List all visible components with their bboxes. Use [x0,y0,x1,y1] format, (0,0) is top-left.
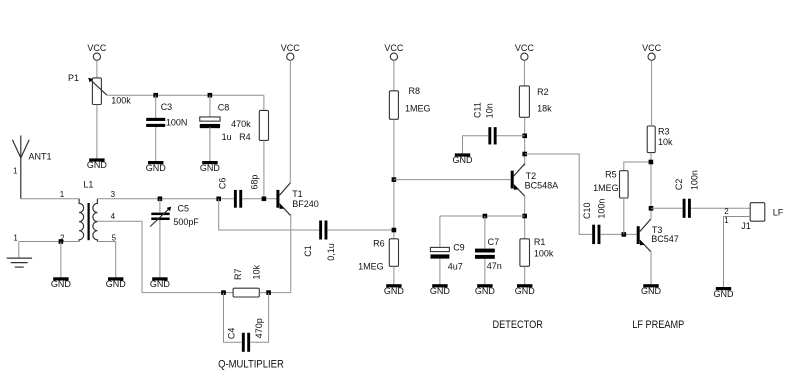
capacitor C9 [439,216,441,247]
wire R7 right to emitter [259,292,291,294]
svg-text:GND: GND [51,279,72,289]
node tank C1 branch [216,197,221,202]
svg-text:LF PREAMP: LF PREAMP [632,319,684,331]
wire C1 to detector [327,229,394,231]
svg-text:GND: GND [106,279,127,289]
wire T3 emitter down [650,251,652,285]
svg-text:J1: J1 [741,221,751,231]
svg-text:C10: C10 [582,202,592,219]
node R7 left [221,290,226,295]
svg-text:1u: 1u [222,132,232,142]
capacitor C3 [155,95,157,118]
capacitor C5 variable [159,199,161,213]
wire C4 right lead [251,293,269,343]
node C1 R6 junction [392,228,397,233]
svg-text:3: 3 [111,190,116,199]
svg-text:C1: C1 [303,245,313,257]
svg-text:GND: GND [515,286,536,296]
wire C11 left [463,136,489,154]
node emitter junction [522,214,527,219]
svg-text:C11: C11 [472,102,482,118]
svg-text:LF: LF [773,207,784,217]
node R3 R5 junction [649,160,654,165]
svg-text:10k: 10k [252,265,262,280]
wire detector to C10 [525,154,592,234]
ground R1 [517,284,532,287]
transistor T3 [637,226,640,244]
svg-text:GND: GND [146,163,167,173]
node detector out junction [522,152,527,157]
wire R1 to gnd [524,266,526,284]
wire L1 pin5 down [97,242,115,278]
svg-text:VCC: VCC [87,43,107,53]
wire C4 left lead [224,293,242,343]
svg-text:4u7: 4u7 [448,262,463,272]
wire R6 to gnd [393,266,395,284]
svg-text:1: 1 [13,233,18,242]
svg-text:1: 1 [13,166,18,175]
svg-text:68p: 68p [250,175,260,190]
svg-text:VCC: VCC [384,43,404,53]
svg-text:GND: GND [714,289,735,299]
resistor R7 [233,288,259,297]
svg-text:100k: 100k [111,96,131,106]
ground C11 [455,153,470,156]
wire C10 to base T3 [601,233,637,235]
wire R8 to R6 [393,119,395,239]
svg-text:100n: 100n [689,170,699,190]
potentiometer P1 [92,78,101,105]
capacitor C1 [319,221,322,240]
transistor T1 [276,190,279,208]
svg-text:C8: C8 [218,102,230,112]
svg-text:R2: R2 [537,87,549,97]
svg-text:1MEG: 1MEG [405,103,431,113]
capacitor C10 [592,225,595,244]
ground C3 [148,161,163,164]
svg-text:R3: R3 [658,127,670,137]
ground P1 [89,158,104,161]
ground C5 [152,277,167,280]
wire tank top [97,198,234,200]
svg-text:500pF: 500pF [173,217,199,227]
wire T1 emitter down [290,214,292,293]
svg-text:BF240: BF240 [292,199,319,209]
svg-text:0,1u: 0,1u [326,243,336,261]
svg-text:R1: R1 [534,237,546,247]
wire R3 to T3 collector [650,153,652,220]
wire P1 bottom to gnd [96,105,98,159]
svg-text:T1: T1 [292,189,303,199]
svg-text:GND: GND [200,163,221,173]
wire C2 to J1 [691,207,750,209]
wire tank to C1 [219,199,320,230]
svg-text:BC547: BC547 [651,234,679,244]
resistor R2 [519,86,529,117]
wire R2 to T2 collector [524,117,526,166]
node base T2 junction [392,177,397,182]
node tank C5 [158,197,163,202]
svg-text:R6: R6 [373,238,385,248]
svg-text:100n: 100n [596,199,606,219]
svg-text:100N: 100N [166,118,188,128]
svg-text:R7: R7 [233,269,243,281]
wire pin2 junction down [60,242,62,278]
wire T2 emitter down [524,195,526,239]
svg-text:18k: 18k [537,103,552,113]
svg-text:DETECTOR: DETECTOR [493,319,543,331]
resistor R8 [389,91,398,120]
wire J1 pin1 to gnd [724,217,751,288]
svg-text:GND: GND [453,155,474,165]
resistor R6 [389,239,398,266]
svg-text:C3: C3 [161,102,173,112]
wire C11 right [497,135,525,137]
svg-text:1MEG: 1MEG [358,262,384,272]
ground R6 [386,284,401,287]
svg-text:C5: C5 [178,204,190,214]
svg-text:R8: R8 [409,86,421,96]
svg-text:GND: GND [475,286,496,296]
wire detector rc [440,215,525,217]
wire C2 left [651,207,682,209]
inductor L1 transformer [79,199,84,242]
svg-text:2: 2 [724,207,729,216]
node L1 pin2 gnd junction [59,239,64,244]
ground J1 [716,287,731,290]
capacitor C4 [242,333,245,352]
svg-text:GND: GND [641,286,662,296]
ground C7 [477,284,492,287]
svg-text:C9: C9 [453,243,465,253]
svg-text:GND: GND [87,160,108,170]
resistor R5 [624,162,651,171]
capacitor C7 [484,216,486,249]
svg-text:VCC: VCC [281,43,301,53]
svg-text:VCC: VCC [515,43,535,53]
node R5 base junction [622,232,627,237]
svg-text:L1: L1 [83,179,93,189]
transistor T2 [511,171,514,189]
svg-text:ANT1: ANT1 [29,152,52,162]
wire vcc rail from P1 wiper [107,94,264,96]
ground pin2 [53,277,68,280]
svg-text:10n: 10n [484,103,494,118]
svg-text:GND: GND [384,286,405,296]
svg-text:470k: 470k [231,119,251,129]
antenna ANT1 [12,140,20,158]
svg-text:470p: 470p [254,318,264,338]
node R7 right [266,290,271,295]
ground T3 [643,284,658,287]
svg-text:C2: C2 [674,179,684,191]
node C11 junction [522,134,527,139]
resistor R4 [263,95,265,110]
resistor R3 [647,126,655,153]
wire antenna to L1 pin 1 [21,198,79,200]
svg-text:C7: C7 [488,237,500,247]
svg-text:BC548A: BC548A [525,181,559,191]
node C2 junction [649,206,654,211]
node C7 junction [483,214,488,219]
capacitor C6 [234,190,237,208]
svg-text:C6: C6 [218,178,228,190]
earth ground [18,242,20,259]
svg-text:1: 1 [724,216,729,225]
svg-text:47n: 47n [487,261,502,271]
svg-text:VCC: VCC [642,43,662,53]
node base R4 junction [262,197,267,202]
capacitor C11 [488,127,491,144]
wire L1 pin2 to earth [19,241,79,243]
svg-text:100k: 100k [534,249,554,259]
svg-text:1MEG: 1MEG [593,183,619,193]
wire C6 to base junction [242,198,276,200]
svg-text:R4: R4 [239,132,251,142]
svg-text:4: 4 [111,212,116,221]
node rail C8 [208,93,213,98]
connector J1 [750,203,765,222]
svg-text:C4: C4 [226,328,236,340]
wire base T2 [394,179,511,181]
wire pin4 to R7 [97,221,233,292]
svg-text:GND: GND [150,279,171,289]
svg-text:1: 1 [60,190,65,199]
capacitor C2 [683,199,686,218]
svg-text:10k: 10k [658,137,673,147]
svg-text:R5: R5 [605,170,617,180]
capacitor C8 [209,95,211,118]
svg-text:GND: GND [430,286,451,296]
svg-text:Q-MULTIPLIER: Q-MULTIPLIER [218,358,284,370]
svg-text:P1: P1 [68,73,79,83]
ground C8 [202,161,217,164]
ground pin5 [108,277,123,280]
ground C9 [432,284,447,287]
node rail C3 [153,93,158,98]
resistor R1 [520,239,530,266]
